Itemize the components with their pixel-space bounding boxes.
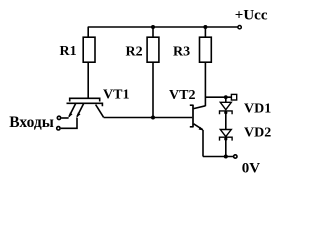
svg-text:VD2: VD2 xyxy=(244,126,271,141)
transistor VT2 bar xyxy=(192,105,194,128)
svg-text:VT1: VT1 xyxy=(103,87,129,102)
svg-text:R1: R1 xyxy=(60,44,77,59)
svg-text:+Ucc: +Ucc xyxy=(235,8,268,24)
svg-text:0V: 0V xyxy=(242,161,260,177)
diode VD2 triangle xyxy=(220,130,231,137)
svg-text:R2: R2 xyxy=(126,44,143,59)
diode VD1 triangle xyxy=(220,102,231,109)
resistor R1 xyxy=(83,37,95,62)
wire R2 bottom lead xyxy=(152,62,154,117)
wire input 2 L to emitter 2 xyxy=(61,118,77,129)
transistor VT1 collector xyxy=(96,105,104,118)
wire R1 top lead xyxy=(87,27,89,37)
terminal 0V xyxy=(234,155,237,158)
resistor R2 xyxy=(147,37,159,62)
terminal input 1 xyxy=(57,116,60,119)
node junction R3-rail xyxy=(203,25,207,29)
terminal input 2 xyxy=(57,127,60,130)
wire R3 top lead xyxy=(204,27,206,37)
svg-text:R3: R3 xyxy=(173,45,190,60)
transistor VT1 bar xyxy=(67,103,103,106)
diode VD2 cathode bar xyxy=(220,137,233,140)
transistor VT2 bar tick top xyxy=(190,104,193,106)
wire output node xyxy=(205,96,231,98)
transistor VT1 emitter 1 xyxy=(69,103,76,116)
node junction VD2-0V rail xyxy=(224,155,228,159)
wire VD1 anode xyxy=(225,97,227,102)
transistor VT2 collector xyxy=(194,106,206,109)
wire input 1 stub xyxy=(61,117,68,119)
wire VD2 cathode down xyxy=(225,137,227,156)
terminal output square xyxy=(231,94,236,100)
transistor VT2 emitter arrowhead xyxy=(199,127,204,131)
transistor VT1 emitter 2 xyxy=(77,103,84,116)
terminal +Ucc xyxy=(238,26,241,29)
wire VT1 collector to VT2 base xyxy=(104,117,193,119)
wire VD1-VD2 xyxy=(225,111,227,130)
wire R3 bottom lead to VT2 collector xyxy=(204,62,206,106)
resistor R3 xyxy=(200,37,212,62)
transistor VT1 emitter 1 arrowhead xyxy=(68,113,72,118)
wire +Ucc top rail xyxy=(88,26,238,28)
svg-text:Входы: Входы xyxy=(9,114,54,131)
transistor VT1 emitter 2 arrowhead xyxy=(76,113,80,118)
diode VD1 cathode bar xyxy=(220,111,233,114)
node VD1 cathode dot xyxy=(224,111,227,114)
wire VT2 emitter down xyxy=(202,130,204,157)
transistor VT2 bar tick bottom xyxy=(190,126,193,128)
svg-text:VD1: VD1 xyxy=(244,102,271,117)
wire 0V bottom rail xyxy=(203,156,234,158)
transistor VT2 emitter xyxy=(194,124,203,130)
node junction VD1-output xyxy=(224,95,228,99)
node junction R2-rail xyxy=(151,25,155,29)
transistor VT1 multi-emitter: base plate xyxy=(70,98,100,101)
node VD2 cathode dot xyxy=(224,137,227,140)
node junction R2-base wire xyxy=(151,116,155,120)
svg-text:VT2: VT2 xyxy=(169,88,195,103)
wire R1 bottom lead to VT1 base xyxy=(87,62,89,98)
wire R2 top lead xyxy=(152,27,154,37)
